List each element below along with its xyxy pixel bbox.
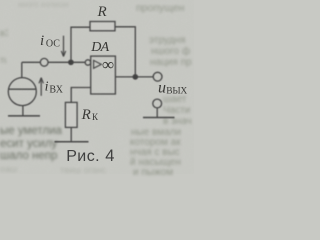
svg-text:4: 4 [105,147,114,165]
svg-text:i: i [45,79,49,94]
svg-text:i: i [40,33,44,49]
svg-text:К: К [92,112,99,122]
svg-text:R: R [97,4,107,20]
svg-text:Рис.: Рис. [66,148,100,165]
svg-text:u: u [158,80,166,97]
svg-text:∞: ∞ [102,55,114,74]
svg-text:R: R [81,107,91,123]
svg-text:ОС: ОС [46,39,60,50]
svg-text:DA: DA [90,40,109,55]
svg-text:ВХ: ВХ [49,85,63,96]
svg-text:ВЫХ: ВЫХ [166,86,187,96]
